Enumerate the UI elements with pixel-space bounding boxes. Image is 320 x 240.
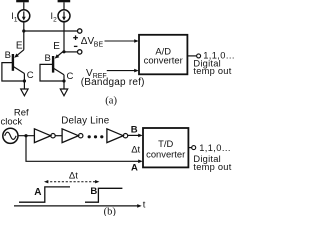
wire A/D output — [187, 55, 196, 57]
wire node to + terminal of dVBE — [24, 30, 78, 32]
svg-text:BE: BE — [94, 41, 104, 48]
wire node B to T/D converter (arrow) — [128, 134, 143, 138]
svg-text:ΔV: ΔV — [81, 36, 95, 47]
supply bar 1 (VDD rail of I1) — [16, 0, 29, 2]
label I2 — [51, 11, 58, 23]
svg-text:Delay Line: Delay Line — [61, 115, 109, 126]
inverter U2 — [34, 129, 55, 143]
svg-text:Δt: Δt — [69, 170, 78, 181]
supply bar 2 (VDD rail of I2) — [58, 0, 71, 2]
terminal T/D output (open circle) — [192, 146, 196, 150]
svg-text:(Bandgap ref): (Bandgap ref) — [81, 77, 145, 88]
junction node Q2 collector — [62, 79, 65, 82]
svg-text:C: C — [27, 70, 34, 81]
ground symbol Q1 — [21, 89, 28, 96]
svg-text:E: E — [53, 41, 60, 52]
label Ref clock — [1, 107, 30, 127]
transistor Q2 (substrate PNP, diode-connected) — [53, 51, 64, 81]
label dVBE — [81, 36, 104, 48]
svg-text:Δt: Δt — [131, 144, 140, 155]
waveform B pulse — [85, 188, 122, 202]
clock source X1 (sine source) — [3, 128, 18, 143]
svg-text:temp out: temp out — [193, 162, 231, 172]
label digital output bits (a) — [193, 51, 234, 76]
wire VREF to A/D converter (arrow) — [107, 69, 139, 73]
svg-text:B: B — [5, 50, 11, 61]
label - — [74, 45, 78, 47]
T/D converter U5 — [143, 128, 188, 167]
svg-text:B: B — [131, 125, 138, 136]
svg-text:1: 1 — [14, 16, 18, 23]
wire clock to delay line — [18, 135, 34, 137]
wire U2 to U3 — [55, 135, 62, 137]
junction node Q1 emitter — [22, 29, 25, 32]
svg-text:(b): (b) — [104, 207, 117, 217]
time axis with arrow — [14, 204, 142, 208]
label I1 — [11, 11, 18, 23]
terminal + (open circle) — [78, 29, 82, 33]
current source I1 — [18, 10, 30, 22]
wire Q2 base to collector loop — [40, 64, 64, 81]
label + — [73, 35, 78, 40]
svg-text:T/D: T/D — [158, 138, 173, 149]
svg-text:B: B — [90, 186, 97, 197]
svg-text:E: E — [16, 40, 23, 51]
label digital output bits (b) — [193, 143, 231, 172]
svg-text:t: t — [143, 199, 146, 210]
wire T/D output — [188, 147, 191, 149]
dashed arrow dt between edges A and B — [44, 180, 99, 183]
svg-text:A: A — [34, 187, 41, 198]
wire supply to I2 — [63, 2, 65, 10]
wire supply to I1 — [23, 2, 25, 10]
waveform A pulse — [19, 187, 70, 202]
svg-text:temp out: temp out — [193, 66, 231, 76]
wire dVBE to A/D converter (arrow) — [105, 39, 139, 43]
svg-text:(a): (a) — [105, 96, 117, 107]
svg-text:1,1,0...: 1,1,0... — [199, 143, 231, 153]
inverter U4 — [107, 129, 128, 143]
svg-text:2: 2 — [53, 16, 57, 23]
wire I2 down to emitter node of Q2 — [63, 22, 65, 52]
junction node A tap — [24, 134, 27, 137]
A/D converter U1 — [139, 35, 187, 75]
terminal - (open circle) — [78, 50, 82, 54]
label VREF — [86, 68, 107, 80]
wire Q1 base to collector loop — [2, 63, 25, 81]
inverter U3 — [62, 129, 83, 143]
transistor Q1 (substrate PNP, diode-connected) — [13, 31, 25, 81]
terminal A/D output (open circle) — [197, 54, 201, 58]
ground symbol Q2 — [60, 89, 67, 96]
junction node Q1 collector — [23, 79, 26, 82]
svg-text:C: C — [67, 71, 74, 82]
svg-text:clock: clock — [1, 116, 23, 127]
wire node to - terminal of dVBE — [64, 51, 78, 53]
wire node A to T/D converter (arrow) — [26, 136, 143, 163]
ellipsis dots of delay line — [88, 135, 104, 138]
svg-text:A: A — [131, 163, 138, 174]
wire Q1 collector to ground — [23, 81, 25, 89]
svg-text:B: B — [45, 53, 51, 64]
svg-text:converter: converter — [146, 149, 185, 160]
current source I2 — [58, 10, 70, 22]
wire I1 to emitter node of Q1 — [23, 22, 25, 31]
svg-text:converter: converter — [144, 54, 183, 65]
junction node Q2 emitter — [62, 50, 65, 53]
wire Q2 collector to ground — [63, 81, 65, 89]
